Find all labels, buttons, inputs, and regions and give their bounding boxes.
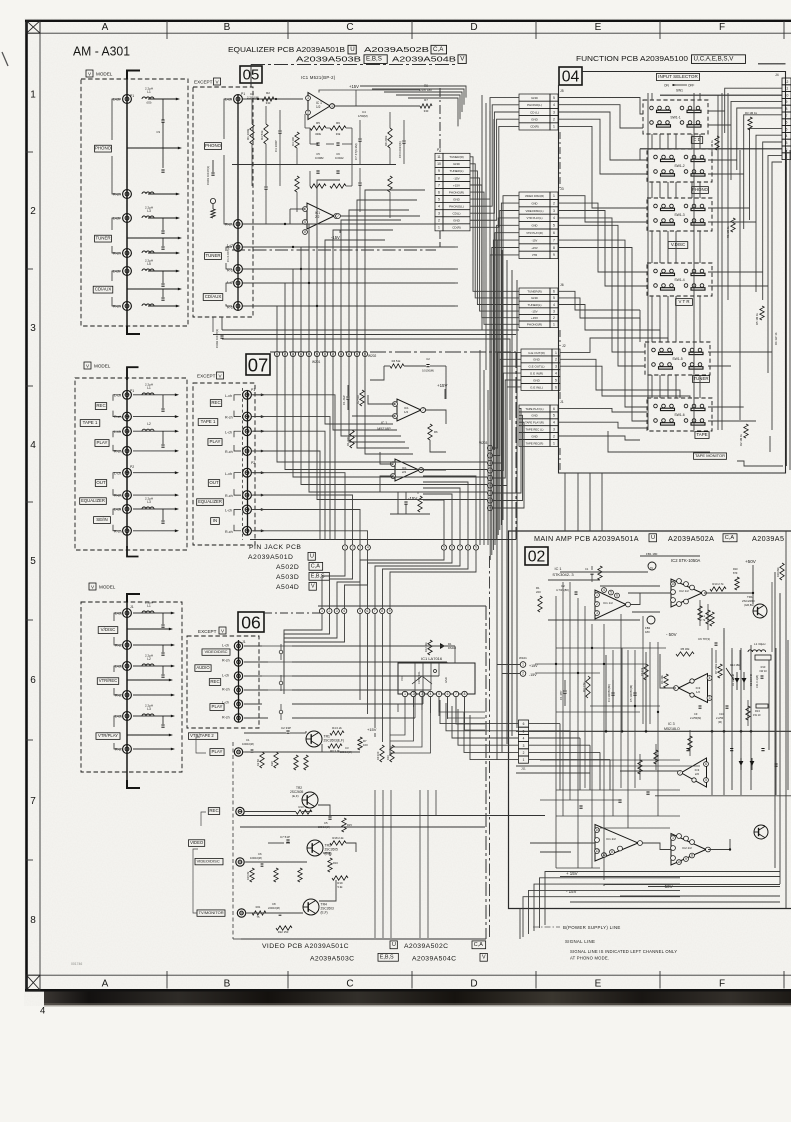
svg-text:1W 10: 1W 10 xyxy=(759,669,767,673)
svg-text:AUDIO: AUDIO xyxy=(196,665,210,670)
svg-text:13: 13 xyxy=(595,849,599,853)
pin jack group2-V 5 xyxy=(123,468,132,477)
svg-text:L-ch: L-ch xyxy=(113,98,120,102)
svg-text:33k: 33k xyxy=(336,132,341,136)
svg-text:EXCEPT: EXCEPT xyxy=(197,373,216,378)
svg-text:11: 11 xyxy=(437,155,441,159)
svg-text:4: 4 xyxy=(438,204,440,208)
svg-text:2: 2 xyxy=(555,358,557,362)
wire jack g2v xyxy=(133,494,176,496)
svg-text:R4 1M 1k: R4 1M 1k xyxy=(710,139,714,152)
label PLAY lower xyxy=(210,749,224,756)
svg-text:2/2: 2/2 xyxy=(402,470,407,474)
diode D1 DS448 xyxy=(438,645,446,647)
svg-text:GND: GND xyxy=(453,162,461,166)
svg-text:L3: L3 xyxy=(147,209,151,213)
R7 100 resistor vertical xyxy=(358,737,362,750)
svg-text:R-ch: R-ch xyxy=(225,416,233,420)
jack bus wire group1 except xyxy=(237,95,239,310)
svg-text:879: 879 xyxy=(733,571,738,575)
svg-text:6: 6 xyxy=(705,762,707,766)
label SE/IN g2v xyxy=(94,517,111,524)
svg-text:0.0082: 0.0082 xyxy=(315,156,324,160)
top long wire from g1e jack phono to block05 xyxy=(237,94,239,96)
svg-text:R9 47k: R9 47k xyxy=(640,667,644,676)
pin jack rec lower xyxy=(236,807,244,815)
svg-text:SIGNAL LINE: SIGNAL LINE xyxy=(565,939,595,944)
svg-text:L-ch: L-ch xyxy=(225,98,232,102)
svg-text:10: 10 xyxy=(677,860,681,864)
svg-text:8: 8 xyxy=(381,609,383,613)
op-amp IC3 2/2 pointing left xyxy=(681,758,707,787)
op-amp IC3 1/2 pointing left xyxy=(679,674,708,703)
svg-text:CD/AUX: CD/AUX xyxy=(95,287,112,292)
wire jack g3v xyxy=(133,665,172,667)
pin jack P1-2 (V model g1) xyxy=(123,190,132,199)
cap g2v b xyxy=(162,431,164,444)
svg-text:R16 82k: R16 82k xyxy=(776,567,780,577)
svg-text:R-ch: R-ch xyxy=(115,644,123,648)
bracket R-ch xyxy=(112,156,121,194)
block 05 board outline right xyxy=(439,88,441,152)
R3 R16 resistors xyxy=(294,755,298,770)
lower channel caps row xyxy=(251,165,253,187)
R2 51k vertical xyxy=(360,390,364,406)
wires block07 to block06 transition xyxy=(322,550,345,608)
svg-text:4: 4 xyxy=(343,609,345,613)
wire jack g2v xyxy=(133,472,176,474)
svg-text:10: 10 xyxy=(437,162,441,166)
wire jack g2e short xyxy=(252,509,262,511)
svg-text:L-ch: L-ch xyxy=(114,471,121,475)
block07 bottom connector circles 5-9 xyxy=(441,545,446,550)
wires TR stages xyxy=(244,732,268,734)
svg-text:3: 3 xyxy=(786,141,788,145)
wires la7016 pins down xyxy=(404,697,406,704)
bracket R-ch xyxy=(112,246,121,253)
board edge corner bottom xyxy=(127,326,140,334)
svg-text:R3 1M 1k: R3 1M 1k xyxy=(745,111,758,115)
J11 wires into circuit xyxy=(529,723,560,725)
svg-text:VIDEODISC(L): VIDEODISC(L) xyxy=(525,209,543,213)
R14 18k diagonal resistor xyxy=(726,668,734,680)
cap C902 below box xyxy=(212,317,214,332)
svg-text:R-ch: R-ch xyxy=(222,716,230,720)
label VIDEO xyxy=(189,840,205,847)
svg-text:2.2µH: 2.2µH xyxy=(145,497,153,501)
wires block06 circles down into video circuits xyxy=(284,614,322,646)
test point circle xyxy=(210,198,215,203)
svg-text:R20: R20 xyxy=(270,761,274,766)
transistor TR1 main xyxy=(753,604,767,618)
pin jack group2-V 4 xyxy=(123,447,132,456)
svg-text:L5: L5 xyxy=(147,262,151,266)
svg-text:IC 1: IC 1 xyxy=(555,567,562,571)
board edge dash below P2 xyxy=(439,231,441,247)
svg-text:4: 4 xyxy=(30,440,36,451)
R4 0.2k resistor xyxy=(330,731,344,735)
horizontal bundle row3 from group1 to function block xyxy=(222,329,519,331)
bus wires sw1-1 to connectors xyxy=(559,98,644,115)
pin jack group2-except 8 xyxy=(243,526,252,535)
op-amp IC2 1/2 main xyxy=(671,579,702,607)
svg-text:L-ch: L-ch xyxy=(225,430,232,434)
svg-text:C,A: C,A xyxy=(725,535,735,541)
svg-text:4: 4 xyxy=(367,546,369,550)
svg-text:-15V: -15V xyxy=(453,176,459,180)
coil g3v c xyxy=(142,714,154,716)
feedback network R6 33k xyxy=(330,126,346,130)
svg-text:GND: GND xyxy=(531,296,539,300)
svg-text:2: 2 xyxy=(523,751,525,755)
label AUDIO g3e xyxy=(195,665,211,672)
svg-text:4: 4 xyxy=(553,421,555,425)
svg-text:2: 2 xyxy=(553,118,555,122)
svg-text:L1 33µH: L1 33µH xyxy=(754,642,765,646)
connector W202 circled pins row xyxy=(322,351,327,356)
jack bus g2e xyxy=(247,390,249,535)
svg-text:V T R: V T R xyxy=(678,299,689,304)
svg-text:STK3042- 3: STK3042- 3 xyxy=(552,572,574,577)
long verticals video mid extend xyxy=(374,790,376,938)
caps row above ic1 2/2 xyxy=(579,805,582,807)
svg-text:-15V: -15V xyxy=(532,238,538,242)
svg-text:TUNER: TUNER xyxy=(95,236,110,241)
svg-text:5: 5 xyxy=(553,96,555,100)
svg-text:6: 6 xyxy=(30,675,36,686)
svg-text:TAPE PLAY(R): TAPE PLAY(R) xyxy=(525,421,544,425)
svg-text:TAPE REC(R): TAPE REC(R) xyxy=(526,441,544,445)
wire vertical bundle under function block xyxy=(496,240,498,760)
dashed box EXCEPT-V jacks group3 xyxy=(187,636,259,728)
svg-text:MODEL: MODEL xyxy=(96,71,113,76)
svg-text:F: F xyxy=(719,979,725,990)
svg-text:R-ch: R-ch xyxy=(222,659,230,663)
svg-text:J5: J5 xyxy=(560,89,564,93)
wire tape-out bundle from block07 right xyxy=(515,389,517,391)
block06 top connector circles 5-9 xyxy=(357,608,362,613)
svg-text:C11 0.1(M): C11 0.1(M) xyxy=(755,675,759,688)
svg-text:G.E OUT(R): G.E OUT(R) xyxy=(528,351,545,355)
svg-text:A2039A502A: A2039A502A xyxy=(668,534,714,543)
pin jack group3-V 1 xyxy=(123,609,132,618)
cap g2v c xyxy=(162,509,164,520)
svg-text:IN: IN xyxy=(213,518,217,523)
pin jack group2-V 7 xyxy=(123,505,132,514)
pin jack play lower xyxy=(234,748,242,756)
svg-text:5: 5 xyxy=(786,127,788,131)
svg-text:OFF: OFF xyxy=(688,84,694,88)
svg-text:3: 3 xyxy=(709,696,711,700)
svg-text:C1 JGP: C1 JGP xyxy=(342,395,346,405)
pin jack group2-V 1 xyxy=(123,390,132,399)
label V.DISC sw xyxy=(668,242,688,249)
svg-text:2.7k: 2.7k xyxy=(700,618,706,622)
svg-text:C901 0.047(2): C901 0.047(2) xyxy=(206,166,210,185)
svg-text:L-ch: L-ch xyxy=(113,270,120,274)
svg-text:R12 91k: R12 91k xyxy=(424,642,428,652)
ground rail video block lower xyxy=(240,826,485,828)
svg-text:1: 1 xyxy=(438,226,440,230)
wire jack g2v xyxy=(133,450,176,452)
diodes D1 D2 DS448 xyxy=(736,672,738,690)
svg-text:10: 10 xyxy=(671,582,675,586)
svg-text:TUNER(L): TUNER(L) xyxy=(450,169,464,173)
svg-text:5: 5 xyxy=(553,224,555,228)
label REC g2v xyxy=(95,403,106,410)
svg-text:REC: REC xyxy=(96,403,105,408)
wires jacks g3e to risers xyxy=(244,645,262,647)
label CD xyxy=(691,137,702,144)
coil L1 g2v xyxy=(142,393,154,395)
pin jack tv monitor xyxy=(237,909,245,917)
extra power bus lines lower xyxy=(560,876,780,878)
svg-text:IC1 1/2: IC1 1/2 xyxy=(603,601,613,605)
svg-text:R13 75: R13 75 xyxy=(298,805,307,809)
svg-text:R-ch: R-ch xyxy=(225,450,233,454)
svg-text:-15V: -15V xyxy=(331,235,340,240)
svg-text:M5218LO: M5218LO xyxy=(664,727,680,731)
svg-text:2: 2 xyxy=(307,111,309,115)
svg-text:R16: R16 xyxy=(333,861,338,865)
central bundle reinforcement lower xyxy=(479,350,481,545)
svg-text:2.2µH: 2.2µH xyxy=(145,704,153,708)
svg-text:+15V: +15V xyxy=(531,246,538,250)
svg-text:C7 51P: C7 51P xyxy=(280,835,290,839)
resistor R3 56k vertical xyxy=(265,106,267,124)
svg-text:VIDEO: VIDEO xyxy=(190,840,204,845)
pin jack group3-V 2 xyxy=(123,641,132,650)
svg-text:1/2: 1/2 xyxy=(696,690,701,694)
sheet border frame xyxy=(25,20,28,991)
svg-text:1: 1 xyxy=(404,692,406,696)
wire jack g2v xyxy=(133,394,176,396)
svg-text:C3: C3 xyxy=(345,746,349,750)
input label PHONO (V model) xyxy=(95,145,112,152)
svg-text:EQUALIZER PCB A2039A501B: EQUALIZER PCB A2039A501B xyxy=(228,45,345,54)
svg-text:TAPE REC (L): TAPE REC (L) xyxy=(526,427,544,431)
top area horizontal wires xyxy=(640,555,700,557)
opamp top feed wire xyxy=(319,90,420,93)
wire jack g2e short xyxy=(252,450,262,452)
inner dashed strip g2e xyxy=(242,388,244,540)
jack bus g3v xyxy=(126,598,128,780)
svg-text:1: 1 xyxy=(30,90,36,101)
C2 cap top xyxy=(426,364,429,366)
svg-text:1: 1 xyxy=(523,758,525,762)
svg-text:GND: GND xyxy=(531,96,539,100)
board corner top g3 xyxy=(127,594,140,602)
bracket g3v xyxy=(114,666,121,672)
label PLAY g2e xyxy=(208,439,222,446)
R9 47k vertical xyxy=(644,664,648,680)
svg-text:C3 100P: C3 100P xyxy=(274,140,278,152)
svg-text:GND: GND xyxy=(531,414,537,418)
svg-text:FUNCTION PCB A2039A5100: FUNCTION PCB A2039A5100 xyxy=(576,54,688,63)
svg-text:8: 8 xyxy=(691,854,693,858)
svg-text:4: 4 xyxy=(523,737,525,741)
power bus nested corners bottom left xyxy=(545,872,680,926)
svg-text:IC2 STK-1050A: IC2 STK-1050A xyxy=(671,558,701,563)
J4 ground rail thick upper xyxy=(660,94,782,96)
right side power rail verticals xyxy=(774,572,776,868)
lower resistor legs xyxy=(295,176,299,192)
svg-text:9: 9 xyxy=(685,857,687,861)
svg-text:EQUALIZER: EQUALIZER xyxy=(198,499,222,504)
switch SW1-1 xyxy=(643,100,708,134)
wire cd R xyxy=(142,304,154,306)
svg-text:7: 7 xyxy=(786,114,788,118)
dash-dot board divider right of block06 xyxy=(489,556,491,938)
svg-text:EXCEPT: EXCEPT xyxy=(194,79,213,84)
svg-text:R-ch: R-ch xyxy=(113,305,121,309)
pin jack group1-except 5 xyxy=(234,279,243,288)
C1 JGP cap vertical xyxy=(347,385,349,396)
R5 36k xyxy=(676,652,694,656)
svg-text:IC1 2/2: IC1 2/2 xyxy=(606,837,616,841)
bracket g3v xyxy=(114,613,121,621)
svg-text:04: 04 xyxy=(562,69,580,86)
switch column verticals sw1-1 to sw1-4 xyxy=(651,134,653,149)
svg-text:W201: W201 xyxy=(312,360,321,364)
svg-text:R9 100: R9 100 xyxy=(376,751,380,760)
svg-text:J4: J4 xyxy=(775,73,779,77)
wire tuner L xyxy=(148,217,177,219)
block number 05 xyxy=(240,66,262,83)
svg-text:1: 1 xyxy=(596,593,598,597)
svg-text:1: 1 xyxy=(321,609,323,613)
wires into W101 and J11 from left bundle xyxy=(487,390,489,545)
cap C11 200PK xyxy=(162,218,164,230)
wires opamp outputs xyxy=(630,593,671,605)
svg-text:W202: W202 xyxy=(368,354,377,358)
R6 3.9k resistor xyxy=(328,744,342,748)
feedback network R5 430k xyxy=(310,126,326,130)
svg-text:9: 9 xyxy=(389,609,391,613)
small coupling parts between jack rows g3e xyxy=(279,650,283,654)
svg-text:220/10(M): 220/10(M) xyxy=(268,906,280,910)
transistor TR2 main xyxy=(754,825,768,839)
svg-text:5: 5 xyxy=(553,296,555,300)
op-amp1 out pin7 xyxy=(421,408,426,413)
svg-text:02: 02 xyxy=(528,549,546,566)
svg-text:PLAY: PLAY xyxy=(210,439,221,444)
svg-text:L2: L2 xyxy=(147,422,151,426)
wires right edge verticals below J4 xyxy=(786,150,788,466)
wires function block bottom to main amp top xyxy=(564,473,566,531)
TR4 area parts xyxy=(252,911,266,915)
block06 top connector circles 1-4 xyxy=(319,608,324,613)
svg-text:R-ch: R-ch xyxy=(113,252,121,256)
op-amp2 output pin 7 xyxy=(336,214,341,219)
video bracket wires xyxy=(193,849,198,913)
svg-text:2.2µH: 2.2µH xyxy=(145,206,153,210)
svg-text:SW1-5: SW1-5 xyxy=(672,357,682,361)
svg-text:+15V: +15V xyxy=(453,183,460,187)
video model box U xyxy=(390,941,397,949)
model box U,C,A,E,B,S,V xyxy=(692,55,746,64)
svg-text:E,B,S: E,B,S xyxy=(380,955,394,961)
R7 200k vertical xyxy=(718,664,722,678)
svg-text:PHONO(R): PHONO(R) xyxy=(527,323,542,327)
pin jack group2-except 5 xyxy=(243,468,252,477)
svg-text:1: 1 xyxy=(553,194,555,198)
function pcb outline xyxy=(559,72,786,474)
svg-text:SIGNAL LINE IS INDICATED L: SIGNAL LINE IS INDICATED LEFT CHANNEL ON… xyxy=(570,949,677,954)
svg-text:U: U xyxy=(350,46,354,53)
svg-text:7: 7 xyxy=(679,771,681,775)
svg-text:P2: P2 xyxy=(130,465,134,469)
pin jack group2-except 1 xyxy=(243,390,252,399)
pin jack group3-V 3 xyxy=(123,662,132,671)
svg-text:07: 07 xyxy=(248,355,269,376)
svg-text:V.DISC: V.DISC xyxy=(671,242,685,247)
R8 200k vertical xyxy=(389,112,391,128)
wire to +15 rail xyxy=(355,96,357,106)
svg-text:A: A xyxy=(102,979,109,990)
ic LA7016 pins xyxy=(402,691,407,696)
op-amp IC1 2/2 xyxy=(307,203,334,229)
FB2 bead xyxy=(647,616,655,624)
svg-text:L-ch: L-ch xyxy=(222,644,229,648)
svg-text:C8: C8 xyxy=(272,902,276,906)
video model box V line2 xyxy=(480,953,487,961)
label EQUALIZER g2v xyxy=(80,498,107,505)
svg-text:C8 0.0033(K): C8 0.0033(K) xyxy=(398,141,402,158)
svg-text:VIDEO/DISC: VIDEO/DISC xyxy=(204,649,227,654)
transistor TR2 xyxy=(302,792,318,808)
label TAPE 1 g2v xyxy=(80,420,100,427)
block 07 outline bottom xyxy=(250,539,516,541)
long verticals video to J11 bundle xyxy=(440,700,519,724)
svg-text:8: 8 xyxy=(467,546,469,550)
svg-text:6: 6 xyxy=(447,692,449,696)
input label TUNER (V model) xyxy=(95,235,112,242)
svg-text:6: 6 xyxy=(555,385,557,389)
svg-text:J3: J3 xyxy=(560,187,564,191)
svg-text:R4 51k: R4 51k xyxy=(392,359,401,363)
coil g3v a xyxy=(142,611,154,613)
resistor R1 100k vertical xyxy=(251,99,253,124)
svg-text:220: 220 xyxy=(536,590,541,594)
svg-text:P2: P2 xyxy=(251,461,255,465)
pin jack group3-except 3 xyxy=(234,672,242,680)
play jack wire long xyxy=(245,751,360,753)
bus wires J6 J2 J1 internal xyxy=(559,291,641,310)
svg-text:3: 3 xyxy=(555,365,557,369)
svg-text:REC: REC xyxy=(209,808,218,813)
svg-text:3: 3 xyxy=(30,323,36,334)
op-amp IC1 2/2 block07 xyxy=(395,459,419,481)
board corner bottom g3 xyxy=(127,780,140,788)
svg-text:8: 8 xyxy=(786,107,788,111)
svg-text:4: 4 xyxy=(709,676,711,680)
svg-text:R4 0.2k: R4 0.2k xyxy=(332,726,342,730)
svg-text:4: 4 xyxy=(553,103,555,107)
svg-text:L-ch: L-ch xyxy=(114,508,121,512)
svg-text:SW1-2: SW1-2 xyxy=(674,164,684,168)
coil L2 g2v xyxy=(142,429,154,431)
svg-text:L-ch: L-ch xyxy=(115,715,122,719)
svg-text:C,A: C,A xyxy=(311,564,320,570)
svg-text:-15V: -15V xyxy=(531,309,537,313)
R6 39k vertical xyxy=(664,674,668,688)
svg-text:E: E xyxy=(595,979,602,990)
svg-text:GND: GND xyxy=(444,677,448,683)
op-amp output pin 1 xyxy=(330,104,335,109)
svg-text:R3 56k: R3 56k xyxy=(260,130,264,140)
phono bus arrow xyxy=(127,147,178,149)
